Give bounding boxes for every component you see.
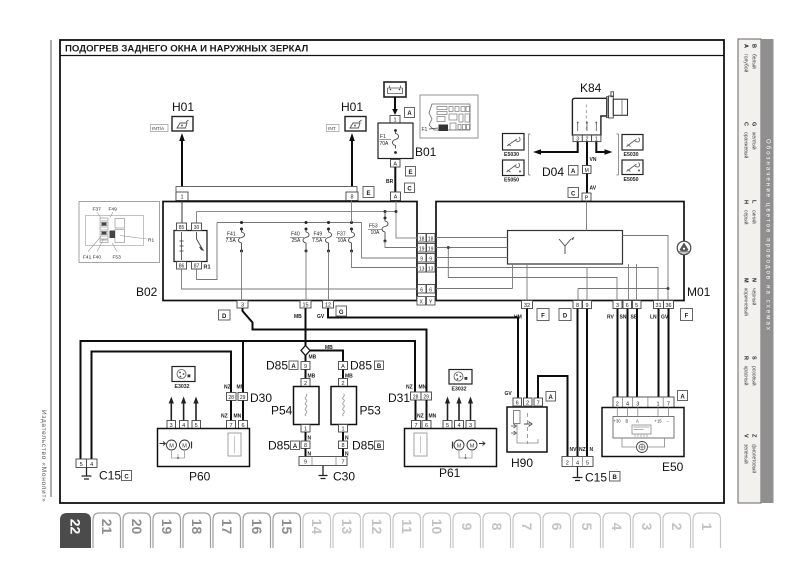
svg-text:1: 1 bbox=[180, 195, 183, 201]
svg-text:D85: D85 bbox=[352, 439, 374, 453]
title bar bbox=[60, 55, 724, 57]
connector icon E3032 right bbox=[449, 370, 472, 393]
svg-text:A: A bbox=[293, 444, 298, 450]
connector strip linking mirror feeds bbox=[176, 187, 357, 201]
svg-text:оранжевый: оранжевый bbox=[743, 132, 750, 158]
wire H01 feed down to fuse bus bbox=[351, 201, 353, 223]
svg-text:MN: MN bbox=[429, 414, 437, 420]
page tab 5 bbox=[573, 513, 601, 548]
legend H/L bbox=[743, 200, 758, 225]
wire AV to M01 bbox=[587, 174, 597, 194]
M01 pin 9 bbox=[583, 301, 592, 310]
svg-text:INT: INT bbox=[328, 126, 336, 132]
svg-text:A: A bbox=[571, 169, 576, 175]
svg-text:H01: H01 bbox=[172, 100, 194, 114]
left margin rule bbox=[50, 40, 52, 497]
svg-text:A: A bbox=[291, 364, 296, 370]
svg-text:P60: P60 bbox=[189, 470, 211, 484]
code box F right bbox=[681, 309, 693, 321]
M01 pin 3 bbox=[613, 301, 622, 310]
svg-text:1: 1 bbox=[656, 401, 659, 407]
svg-text:8: 8 bbox=[489, 523, 505, 531]
svg-text:36: 36 bbox=[665, 303, 671, 309]
svg-text:GV: GV bbox=[505, 391, 513, 397]
svg-text:3: 3 bbox=[576, 136, 579, 142]
wire pin1 to relay 85 bbox=[181, 201, 183, 224]
svg-text:D85: D85 bbox=[268, 439, 290, 453]
code box Y bbox=[427, 297, 436, 306]
svg-text:D85: D85 bbox=[350, 359, 372, 373]
svg-text:желтый: желтый bbox=[751, 132, 758, 150]
svg-text:25A: 25A bbox=[292, 238, 302, 244]
mirror unit P60 bbox=[158, 429, 250, 467]
svg-text:3: 3 bbox=[636, 401, 639, 407]
page tab 6 bbox=[543, 513, 571, 548]
fuse F49 bbox=[312, 221, 332, 253]
heated window symbol bbox=[559, 237, 575, 255]
page tab 12 bbox=[363, 513, 391, 548]
page tab 1 bbox=[693, 513, 721, 548]
wire diamond to D85 A bbox=[305, 356, 307, 362]
H90 pins bbox=[513, 398, 543, 406]
svg-text:2: 2 bbox=[566, 460, 569, 466]
svg-text:C15: C15 bbox=[99, 469, 121, 483]
page tab 8 bbox=[483, 513, 511, 548]
svg-text:синий: синий bbox=[751, 210, 758, 224]
svg-text:A: A bbox=[743, 44, 749, 48]
code box E bbox=[406, 167, 416, 177]
svg-text:19: 19 bbox=[419, 246, 425, 252]
svg-text:RV: RV bbox=[607, 315, 615, 321]
svg-text:E50: E50 bbox=[662, 460, 684, 474]
svg-text:22: 22 bbox=[68, 519, 84, 535]
wires D30 to P60 bbox=[230, 401, 232, 421]
B02 pin 15 bbox=[300, 301, 311, 309]
svg-text:D04: D04 bbox=[542, 165, 564, 179]
svg-text:MB: MB bbox=[294, 314, 302, 320]
code box C bbox=[568, 188, 579, 198]
arrows P60 to E3032 bbox=[169, 397, 199, 421]
svg-text:21: 21 bbox=[99, 519, 115, 535]
wire K84 pin1 to connectors right bbox=[596, 142, 612, 155]
bracket right pair bbox=[617, 134, 619, 175]
code box F bbox=[537, 309, 549, 321]
svg-text:1: 1 bbox=[595, 136, 598, 142]
svg-text:1: 1 bbox=[699, 523, 715, 531]
wire VN from K84 pin2 bbox=[587, 142, 597, 166]
legend V/Z bbox=[743, 434, 758, 473]
svg-text:31: 31 bbox=[655, 303, 661, 309]
wire MB from B02 pin15 to diamond bbox=[305, 308, 307, 346]
svg-text:3: 3 bbox=[241, 303, 244, 309]
svg-text:M: M bbox=[743, 278, 749, 283]
svg-text:F53: F53 bbox=[113, 255, 122, 261]
code box E bbox=[363, 187, 374, 198]
relay pin 86 bbox=[177, 262, 187, 270]
aerial unit E50 pin row bbox=[613, 397, 674, 408]
svg-text:29: 29 bbox=[423, 394, 429, 400]
page tab 3 bbox=[633, 513, 661, 548]
svg-text:M: M bbox=[470, 443, 475, 449]
svg-text:N: N bbox=[590, 447, 594, 453]
svg-text:E: E bbox=[408, 170, 412, 176]
M01 pin 5 bbox=[633, 301, 642, 310]
svg-text:5: 5 bbox=[586, 460, 589, 466]
svg-text:6: 6 bbox=[429, 287, 432, 293]
svg-text:B: B bbox=[613, 475, 618, 481]
fuse F41 bbox=[226, 221, 245, 253]
relay R1 bbox=[174, 231, 207, 262]
mirror unit P60 pins bbox=[167, 421, 248, 430]
page tab 13 bbox=[333, 513, 361, 548]
interconnect pins 13 bbox=[418, 264, 436, 273]
svg-text:H90: H90 bbox=[511, 456, 533, 470]
svg-text:A: A bbox=[549, 395, 554, 401]
M01 inner module box bbox=[508, 231, 623, 265]
code box A bbox=[678, 391, 688, 401]
svg-text:6: 6 bbox=[549, 523, 565, 531]
page tab 2 bbox=[663, 513, 691, 548]
svg-text:29: 29 bbox=[240, 395, 246, 401]
relay pin 30 bbox=[192, 223, 202, 231]
lamp H01 left icon bbox=[172, 117, 193, 132]
bracket left pair bbox=[529, 134, 531, 175]
legend C/G bbox=[743, 122, 758, 158]
page tab 18 bbox=[183, 513, 211, 548]
svg-text:18: 18 bbox=[428, 236, 434, 242]
svg-text:C15: C15 bbox=[585, 471, 607, 485]
svg-text:BR: BR bbox=[386, 179, 394, 185]
svg-text:F49: F49 bbox=[314, 232, 323, 238]
wire F37 to pin 13 bbox=[352, 251, 418, 268]
B02/M01 interconnect pins 18 bbox=[418, 234, 436, 243]
svg-text:B02: B02 bbox=[136, 285, 158, 299]
svg-text:D: D bbox=[563, 314, 568, 320]
pin A of B01 bbox=[391, 160, 401, 168]
M01 pin 31 bbox=[654, 301, 664, 310]
svg-text:MN: MN bbox=[237, 385, 245, 391]
svg-text:MB: MB bbox=[309, 355, 317, 361]
svg-text:8: 8 bbox=[304, 443, 307, 449]
svg-text:K84: K84 bbox=[580, 81, 602, 95]
svg-text:P61: P61 bbox=[439, 466, 461, 480]
svg-text:V: V bbox=[743, 434, 749, 438]
switch H90 bbox=[507, 407, 547, 452]
svg-text:86: 86 bbox=[179, 264, 185, 270]
svg-text:13: 13 bbox=[428, 266, 434, 272]
svg-text:9: 9 bbox=[304, 460, 307, 466]
svg-text:NZ: NZ bbox=[417, 414, 424, 420]
svg-text:LN: LN bbox=[650, 315, 657, 321]
legend A/B bbox=[743, 44, 758, 73]
svg-text:E5030: E5030 bbox=[624, 152, 639, 158]
M01 pin 32 bbox=[522, 301, 533, 310]
svg-text:10A: 10A bbox=[371, 230, 381, 236]
D85 A pin 9 bbox=[301, 362, 310, 371]
svg-text:9: 9 bbox=[459, 523, 475, 531]
svg-text:коричневый: коричневый bbox=[743, 288, 750, 316]
pin A into B02 bbox=[391, 192, 401, 201]
svg-text:S: S bbox=[751, 356, 757, 360]
svg-text:F40: F40 bbox=[291, 232, 300, 238]
relay K84 body bbox=[572, 92, 627, 135]
fuse F37 bbox=[336, 221, 355, 253]
svg-text:87: 87 bbox=[194, 264, 200, 270]
code box A bbox=[569, 166, 579, 176]
svg-text:85: 85 bbox=[179, 225, 185, 231]
svg-text:R1: R1 bbox=[148, 238, 154, 244]
svg-text:13: 13 bbox=[339, 519, 355, 535]
page tab 19 bbox=[153, 513, 181, 548]
svg-text:1: 1 bbox=[341, 427, 344, 433]
fusebox location inset bbox=[79, 202, 160, 263]
B02 pin 3 bbox=[237, 301, 248, 309]
svg-text:F41 F40: F41 F40 bbox=[83, 255, 101, 261]
connector icon E5050 right bbox=[622, 160, 643, 183]
svg-text:D30: D30 bbox=[250, 391, 272, 405]
svg-text:F41: F41 bbox=[227, 232, 236, 238]
wire battery to B01 with arrow bbox=[392, 97, 398, 115]
K84 pin 3 bbox=[573, 135, 582, 142]
interconnect pins 6 bbox=[418, 285, 436, 294]
svg-text:7: 7 bbox=[537, 400, 540, 406]
svg-text:G: G bbox=[751, 122, 757, 126]
svg-text:1: 1 bbox=[304, 427, 307, 433]
D85 A lower pin 8 bbox=[301, 441, 310, 449]
pin 8 into B02 bbox=[346, 192, 358, 201]
svg-text:P: P bbox=[585, 196, 589, 202]
code box X bbox=[417, 297, 426, 306]
svg-text:32: 32 bbox=[524, 303, 530, 309]
svg-text:розовый: розовый bbox=[751, 366, 758, 386]
fuse F40 bbox=[290, 221, 309, 253]
svg-text:NV: NV bbox=[570, 447, 578, 453]
svg-text:70A: 70A bbox=[380, 141, 390, 147]
M01 pin 8 bbox=[573, 301, 582, 310]
aerial unit E50 bbox=[602, 408, 684, 457]
svg-text:F53: F53 bbox=[369, 224, 378, 230]
svg-text:16: 16 bbox=[249, 519, 265, 535]
svg-text:2: 2 bbox=[669, 523, 685, 531]
code box A bbox=[546, 392, 556, 402]
K84 pin 2 bbox=[582, 135, 591, 142]
page tab 10 bbox=[423, 513, 451, 548]
ground symbol C15 bbox=[82, 468, 92, 480]
svg-text:2: 2 bbox=[526, 400, 529, 406]
ground symbol C30 bbox=[319, 466, 328, 479]
svg-text:B: B bbox=[751, 44, 757, 48]
svg-text:+30: +30 bbox=[614, 419, 622, 424]
wire F41 to pin 3 bbox=[241, 251, 243, 301]
svg-text:4: 4 bbox=[609, 523, 625, 531]
page tab 9 bbox=[453, 513, 481, 548]
svg-text:белый: белый bbox=[751, 54, 758, 69]
svg-text:9: 9 bbox=[585, 303, 588, 309]
P54 pin 1 bbox=[301, 425, 310, 433]
svg-text:30: 30 bbox=[194, 225, 200, 231]
svg-text:6: 6 bbox=[626, 303, 629, 309]
svg-text:D85: D85 bbox=[266, 359, 288, 373]
svg-text:MB: MB bbox=[325, 345, 333, 351]
svg-text:15: 15 bbox=[279, 519, 295, 535]
svg-text:MN: MN bbox=[419, 385, 427, 391]
svg-text:A: A bbox=[341, 364, 345, 370]
junction unit B02 bbox=[163, 202, 417, 301]
svg-text:F1: F1 bbox=[422, 127, 428, 133]
page tab 4 bbox=[603, 513, 631, 548]
svg-text:C30: C30 bbox=[333, 470, 355, 484]
svg-text:E3032: E3032 bbox=[452, 387, 467, 393]
wire K84 pin3 to connectors left bbox=[533, 142, 578, 155]
svg-text:18: 18 bbox=[419, 236, 425, 242]
page tab 16 bbox=[243, 513, 271, 548]
svg-text:R: R bbox=[743, 356, 749, 360]
pin 1 into B02 bbox=[176, 192, 188, 201]
page tab 20 bbox=[123, 513, 151, 548]
svg-text:15: 15 bbox=[302, 303, 308, 309]
svg-text:B: B bbox=[626, 419, 629, 424]
INT tag bbox=[327, 125, 340, 133]
svg-text:INT/A: INT/A bbox=[152, 126, 165, 132]
svg-text:12: 12 bbox=[325, 303, 331, 309]
arrows P61 to E3032 bbox=[445, 397, 473, 421]
wires M01 to E50 bbox=[617, 309, 619, 398]
page tab 7 bbox=[513, 513, 541, 548]
svg-text:B: B bbox=[377, 364, 382, 370]
ground bus upper to D30/D31 bbox=[81, 341, 416, 459]
svg-text:F37: F37 bbox=[93, 207, 102, 213]
wire GV from B02 pin12 to H90 bbox=[328, 308, 518, 398]
svg-text:F37: F37 bbox=[337, 232, 346, 238]
svg-text:MN: MN bbox=[234, 414, 242, 420]
ground symbol C15 B bbox=[573, 467, 583, 481]
mirror unit P61 bbox=[405, 429, 497, 467]
svg-text:красный: красный bbox=[743, 366, 750, 386]
svg-text:7.5A: 7.5A bbox=[312, 238, 323, 244]
svg-text:SN: SN bbox=[620, 315, 627, 321]
page tab 17 bbox=[213, 513, 241, 548]
svg-text:20: 20 bbox=[129, 519, 145, 535]
svg-text:H: H bbox=[743, 200, 749, 204]
svg-text:M01: M01 bbox=[687, 285, 711, 299]
M01 pin 6 bbox=[623, 301, 632, 310]
INT/A tag bbox=[151, 125, 169, 133]
svg-text:3: 3 bbox=[639, 523, 655, 531]
battery symbol bbox=[384, 82, 406, 97]
fuse F53 bbox=[368, 212, 388, 243]
M01 internal wiring bbox=[436, 202, 668, 301]
control unit M01 bbox=[436, 202, 684, 301]
svg-text:5: 5 bbox=[80, 462, 83, 468]
wire F49 to pin 12 bbox=[328, 251, 330, 301]
wire M01 pin32 to H90 pin2 bbox=[526, 309, 528, 399]
svg-text:C: C bbox=[743, 122, 749, 126]
code box C bbox=[122, 471, 132, 481]
heater element P53 bbox=[331, 387, 357, 425]
D85 B pin A bbox=[339, 362, 348, 371]
svg-text:P53: P53 bbox=[360, 404, 382, 418]
svg-text:6: 6 bbox=[516, 400, 519, 406]
engine fusebox inset illustration bbox=[420, 95, 478, 138]
svg-text:9: 9 bbox=[304, 364, 307, 370]
svg-text:B01: B01 bbox=[415, 145, 437, 159]
svg-text:голубой: голубой bbox=[743, 54, 750, 73]
svg-text:4: 4 bbox=[626, 401, 629, 407]
code box A bbox=[405, 108, 415, 118]
svg-text:Обозначение цветов проводов на: Обозначение цветов проводов на схемах bbox=[765, 139, 771, 332]
svg-text:M: M bbox=[457, 443, 462, 449]
fuse F1 symbol bbox=[393, 129, 399, 154]
svg-text:AV: AV bbox=[590, 186, 597, 192]
connector icon E5030 right bbox=[622, 135, 643, 159]
svg-text:12: 12 bbox=[369, 519, 385, 535]
svg-text:11: 11 bbox=[399, 519, 415, 534]
fuse bus bbox=[217, 222, 362, 224]
wire 87 to fuse bus bbox=[197, 223, 218, 280]
page tab 21 bbox=[93, 513, 121, 548]
code box D bbox=[559, 309, 571, 321]
svg-text:H01: H01 bbox=[341, 100, 363, 114]
wire bus to pin 9 bbox=[362, 223, 418, 259]
page tab 14 bbox=[303, 513, 331, 548]
svg-text:5: 5 bbox=[579, 523, 595, 531]
wire F53 to pin 19 bbox=[385, 241, 418, 248]
M01 pin 36 bbox=[664, 301, 674, 310]
B02 pin 12 bbox=[323, 301, 334, 309]
legend R/S bbox=[743, 356, 758, 386]
svg-text:G: G bbox=[339, 310, 344, 316]
svg-text:M: M bbox=[585, 168, 589, 174]
earth connector C15 B bbox=[562, 457, 593, 467]
interconnect pins 9 bbox=[418, 254, 436, 263]
svg-text:+15: +15 bbox=[655, 419, 663, 424]
svg-text:C: C bbox=[124, 474, 129, 480]
wires D31 to P61 bbox=[415, 400, 417, 421]
svg-text:28: 28 bbox=[413, 394, 419, 400]
svg-text:8: 8 bbox=[350, 195, 353, 201]
brand logo bbox=[677, 241, 691, 255]
earth connector C15 pins bbox=[76, 459, 97, 468]
svg-text:7: 7 bbox=[667, 401, 670, 407]
wire MB from B02 pin3 to D31 bbox=[243, 308, 427, 393]
fuse block B01 bbox=[378, 123, 413, 159]
lamp H01 right icon bbox=[345, 117, 366, 132]
svg-text:F: F bbox=[685, 314, 689, 320]
code box G bbox=[336, 306, 347, 316]
page tab 22 (current) bbox=[60, 513, 91, 548]
svg-text:6: 6 bbox=[420, 287, 423, 293]
svg-text:NZ: NZ bbox=[221, 414, 228, 420]
svg-text:3: 3 bbox=[616, 303, 619, 309]
svg-text:17: 17 bbox=[219, 519, 235, 535]
svg-text:C: C bbox=[407, 187, 412, 193]
svg-text:2: 2 bbox=[586, 136, 589, 142]
svg-text:B: B bbox=[377, 444, 382, 450]
wire F40 to pin 15 bbox=[305, 251, 307, 301]
ground bus lower to D30 bbox=[92, 352, 232, 460]
wire arrow up to H01 left bbox=[179, 133, 185, 187]
svg-text:P54: P54 bbox=[271, 404, 293, 418]
D85 B lower pin 8 bbox=[339, 441, 348, 449]
svg-text:Издательство «Монолит»: Издательство «Монолит» bbox=[40, 410, 47, 502]
svg-text:7.5A: 7.5A bbox=[226, 238, 237, 244]
wire M01 pin8 to C15 pin4 bbox=[577, 309, 579, 457]
page frame bbox=[60, 40, 724, 503]
svg-text:F: F bbox=[541, 314, 545, 320]
svg-text:14: 14 bbox=[309, 519, 325, 535]
connector box M on wire bbox=[583, 166, 592, 175]
mirror unit P61 pins bbox=[412, 421, 476, 430]
